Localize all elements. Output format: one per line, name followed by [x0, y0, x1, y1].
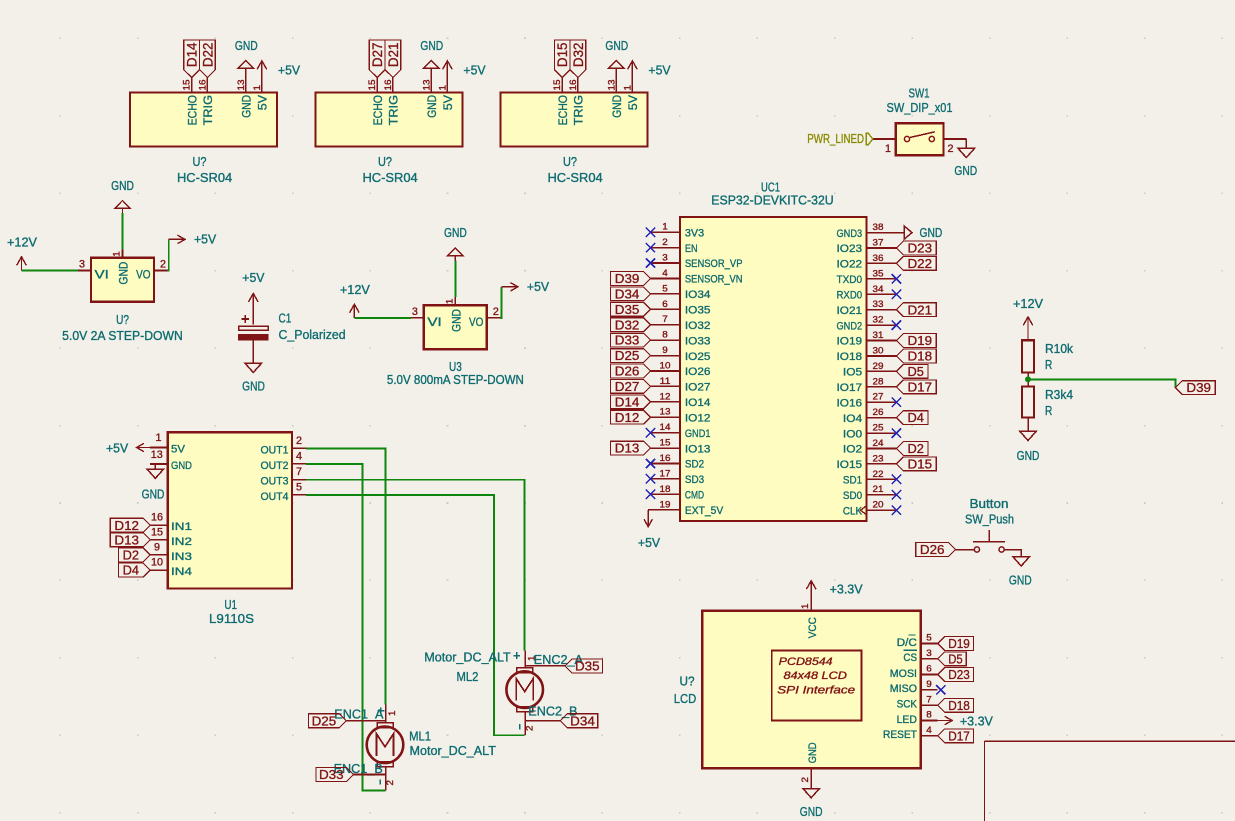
global label D21 — [896, 303, 936, 317]
ultrasonic sensor U? (HC-SR04 #3) — [501, 38, 671, 185]
svg-text:D35: D35 — [615, 302, 640, 317]
svg-text:15: 15 — [182, 80, 192, 91]
svg-text:8: 8 — [926, 710, 932, 720]
LCD pin 6 MOSI — [921, 674, 938, 676]
svg-text:5V: 5V — [171, 444, 185, 456]
svg-text:84x48 LCD: 84x48 LCD — [784, 670, 847, 682]
motor housing top — [377, 723, 393, 728]
motor housing bottom — [517, 707, 533, 712]
svg-text:1: 1 — [437, 85, 447, 91]
wire VI to +12V — [354, 317, 410, 319]
svg-text:GND: GND — [425, 95, 439, 118]
global label D35 — [565, 659, 603, 673]
svg-text:15: 15 — [151, 526, 163, 538]
svg-text:D39: D39 — [615, 271, 640, 286]
svg-text:IO15: IO15 — [837, 459, 863, 471]
svg-text:34: 34 — [873, 284, 884, 294]
global label D18 — [896, 349, 936, 363]
svg-text:IO4: IO4 — [843, 413, 862, 425]
svg-text:IN2: IN2 — [171, 536, 192, 548]
svg-text:SD2: SD2 — [685, 459, 704, 471]
+5V power symbol — [446, 61, 448, 93]
svg-text:15: 15 — [660, 438, 671, 448]
svg-text:D14: D14 — [184, 42, 200, 67]
svg-text:16: 16 — [151, 512, 163, 524]
LCD pin 2 GND — [810, 768, 812, 787]
capacitor C1 — [239, 270, 346, 393]
UC1 pin 15 IO13 — [651, 447, 681, 449]
global label D17 — [896, 380, 936, 394]
+5V power symbol — [261, 61, 263, 93]
motor circle — [506, 671, 543, 708]
global label D19 — [938, 637, 974, 651]
wire OUT2 to ML1 - — [306, 464, 385, 791]
+3.3V power symbol at VCC — [810, 581, 812, 596]
UC1 pin 12 IO14 — [651, 401, 681, 403]
UC1 pin 38 GND3 — [867, 232, 897, 234]
UC1 pin 37 IO23 — [867, 247, 897, 249]
wire ENC2_A to D35 — [525, 665, 565, 667]
U1 pin 4 OUT2 — [292, 463, 306, 465]
svg-text:+5V: +5V — [242, 270, 265, 285]
svg-text:U?: U? — [680, 674, 695, 689]
svg-text:D12: D12 — [114, 518, 139, 533]
wire D33 to ENC1_B — [354, 774, 386, 776]
LCD pin 3 CS — [921, 658, 938, 660]
svg-text:IO35: IO35 — [685, 305, 711, 317]
svg-text:IO22: IO22 — [837, 259, 863, 271]
svg-text:CS: CS — [903, 652, 917, 664]
ultrasonic sensor U? (HC-SR04 #2) — [316, 38, 486, 185]
UC1 pin 14 GND1 — [651, 432, 681, 434]
global label D34 — [560, 714, 598, 728]
LCD pin 5 D/C — [921, 643, 938, 645]
no-connect at pin 32 — [892, 320, 901, 329]
svg-text:D5: D5 — [908, 364, 924, 379]
svg-text:PCD8544: PCD8544 — [779, 656, 833, 668]
svg-text:16: 16 — [197, 80, 207, 91]
svg-text:+5V: +5V — [648, 63, 671, 78]
pin 1 GND — [454, 297, 456, 305]
svg-text:GND1: GND1 — [685, 428, 711, 440]
wire OUT4 to ML2 - — [306, 495, 524, 735]
global label D27 — [611, 380, 651, 394]
svg-text:Motor_DC_ALT: Motor_DC_ALT — [424, 650, 510, 665]
svg-text:GND: GND — [142, 487, 165, 502]
svg-text:U?: U? — [193, 154, 207, 169]
UC1 pin 18 CMD — [651, 493, 681, 495]
svg-text:D25: D25 — [312, 713, 337, 728]
svg-text:D23: D23 — [908, 241, 933, 256]
svg-text:HC-SR04: HC-SR04 — [547, 170, 602, 185]
svg-text:LED: LED — [897, 714, 917, 726]
svg-text:5: 5 — [296, 481, 302, 493]
svg-text:D15: D15 — [554, 42, 570, 67]
svg-text:GND2: GND2 — [837, 320, 863, 332]
LCD module U? PCD8544 — [674, 581, 993, 819]
svg-text:35: 35 — [873, 268, 884, 278]
svg-text:IO26: IO26 — [685, 366, 711, 378]
global label D25 — [611, 349, 651, 363]
svg-text:22: 22 — [873, 469, 884, 479]
no-connect at pin 16 — [646, 459, 655, 468]
svg-text:D22: D22 — [199, 42, 215, 67]
svg-text:CMD: CMD — [685, 490, 704, 502]
pin 1 5V — [631, 78, 633, 93]
svg-text:1: 1 — [387, 711, 397, 717]
svg-text:CLK: CLK — [843, 505, 863, 517]
svg-text:IO21: IO21 — [837, 305, 863, 317]
no-connect at pin 14 — [646, 428, 655, 437]
svg-text:25: 25 — [873, 423, 884, 433]
UC1 pin 13 IO12 — [651, 416, 681, 418]
no-connect at pin 2 — [646, 243, 655, 252]
global label D26 — [611, 364, 651, 378]
global label D27 — [369, 40, 385, 78]
svg-text:U?: U? — [378, 154, 392, 169]
motor driver U1 body — [168, 432, 292, 588]
svg-text:D34: D34 — [570, 713, 595, 728]
ML1 plus pin name — [378, 710, 385, 712]
svg-text:11: 11 — [660, 376, 671, 386]
svg-text:D33: D33 — [615, 333, 640, 348]
SW1 contacts — [904, 136, 909, 141]
UC1 pin 11 IO27 — [651, 385, 681, 387]
svg-text:GND: GND — [420, 38, 443, 53]
svg-text:32: 32 — [873, 315, 884, 325]
svg-text:1: 1 — [662, 222, 668, 232]
svg-text:ENC1_A: ENC1_A — [334, 707, 384, 722]
svg-text:IO32: IO32 — [685, 320, 711, 332]
U1 pin 5 OUT4 — [292, 494, 306, 496]
global label D2 — [896, 442, 928, 456]
UC1 pin 4 SENSOR_VN — [651, 278, 681, 280]
svg-text:D34: D34 — [615, 287, 640, 302]
UC1 pin 6 IO35 — [651, 308, 681, 310]
svg-text:PWR_LINED: PWR_LINED — [807, 131, 864, 146]
svg-text:28: 28 — [873, 376, 884, 386]
svg-text:6: 6 — [662, 299, 668, 309]
svg-text:U1: U1 — [224, 597, 237, 612]
sonar module U3 body — [501, 93, 648, 147]
svg-text:D18: D18 — [908, 349, 933, 364]
ML2 minus pin name — [519, 724, 521, 729]
UC1 pin 25 IO0 — [867, 432, 897, 434]
svg-text:5.0V 800mA STEP-DOWN: 5.0V 800mA STEP-DOWN — [387, 372, 524, 387]
svg-text:IO33: IO33 — [685, 335, 711, 347]
svg-text:TRIG: TRIG — [201, 95, 215, 125]
svg-text:18: 18 — [660, 484, 671, 494]
global label D4 — [118, 563, 150, 577]
svg-text:IO27: IO27 — [685, 382, 711, 394]
svg-text:15: 15 — [367, 80, 377, 91]
global label D15 — [554, 40, 570, 78]
svg-text:SCK: SCK — [897, 699, 918, 711]
svg-text:GND: GND — [800, 804, 823, 819]
+5V power symbol — [631, 61, 633, 93]
global label D15 — [896, 457, 936, 471]
svg-text:13: 13 — [660, 407, 671, 417]
svg-text:IO16: IO16 — [837, 397, 863, 409]
svg-text:SD0: SD0 — [843, 490, 862, 502]
ground symbol at GND3 — [904, 226, 912, 239]
pin 1 5V — [261, 78, 263, 93]
capacitor C1 plus sign — [242, 318, 250, 320]
global label D12 — [110, 518, 150, 532]
U1 pin 1 5V — [150, 447, 167, 449]
svg-text:GND: GND — [605, 38, 628, 53]
svg-text:16: 16 — [568, 80, 578, 91]
sonar module U1 body — [130, 93, 277, 147]
pin 15 ECHO — [561, 78, 563, 93]
global label D25 — [309, 714, 347, 728]
svg-text:3: 3 — [79, 259, 85, 271]
hierarchical label PWR_LINED — [866, 133, 873, 144]
pin 13 GND — [615, 78, 617, 93]
global label D23 — [896, 241, 936, 255]
svg-text:L9110S: L9110S — [209, 611, 254, 626]
svg-text:D19: D19 — [948, 636, 970, 651]
svg-text:4: 4 — [662, 268, 668, 278]
capacitor C1 top plate — [239, 326, 269, 330]
svg-text:GND: GND — [954, 163, 977, 178]
pin 1 5V — [446, 78, 448, 93]
svg-text:ESP32-DEVKITC-32U: ESP32-DEVKITC-32U — [711, 193, 833, 208]
motor housing bottom — [377, 762, 393, 767]
svg-text:19: 19 — [660, 499, 671, 509]
svg-text:+5V: +5V — [463, 63, 486, 78]
UC1 pin 7 IO32 — [651, 324, 681, 326]
global label D35 — [611, 302, 651, 316]
svg-text:D14: D14 — [615, 394, 640, 409]
regulator body — [91, 258, 154, 302]
resistor R3k4 — [1022, 386, 1034, 417]
wire GND pin up — [454, 261, 456, 298]
motor M letter — [516, 679, 533, 701]
svg-text:C_Polarized: C_Polarized — [279, 327, 346, 342]
no-connect at LCD pin 9 — [936, 685, 945, 694]
svg-text:D32: D32 — [615, 317, 640, 332]
svg-text:VI: VI — [95, 268, 109, 282]
global label D22 — [200, 40, 216, 78]
UC1 pin 19 EXT_5V — [651, 509, 681, 511]
wire OUT1 to ML1 + — [306, 448, 385, 704]
motor driver U1 L9110S — [106, 432, 306, 626]
svg-text:D12: D12 — [615, 410, 640, 425]
no-connect at pin 34 — [892, 290, 901, 299]
UC1 pin 20 CLK — [867, 509, 897, 511]
motor wiring — [306, 448, 524, 790]
svg-text:OUT3: OUT3 — [261, 476, 289, 488]
+5V power symbol above C1 — [252, 293, 254, 324]
svg-text:RESET: RESET — [883, 729, 917, 741]
svg-text:D27: D27 — [369, 42, 385, 67]
no-connect at pin 35 — [892, 274, 901, 283]
U1 pin 15 IN2 — [150, 539, 167, 541]
ground symbol — [424, 60, 439, 68]
svg-text:8: 8 — [662, 330, 668, 340]
svg-text:D2: D2 — [123, 548, 139, 563]
no-connect at pin 27 — [892, 398, 901, 407]
global label D2 — [118, 548, 150, 562]
svg-text:1: 1 — [252, 85, 262, 91]
svg-text:6: 6 — [926, 664, 932, 674]
svg-text:+5V: +5V — [527, 279, 550, 294]
svg-text:IO14: IO14 — [685, 397, 711, 409]
resistor R10k — [1022, 340, 1034, 372]
wire D26 to button — [956, 549, 975, 551]
svg-text:D13: D13 — [114, 532, 139, 547]
UC1 pin 32 GND2 — [867, 324, 897, 326]
UC1 pin 26 IO4 — [867, 417, 897, 419]
global label D4 — [896, 411, 928, 425]
ground symbol — [238, 60, 253, 68]
sheet border corner — [985, 741, 1235, 821]
svg-text:30: 30 — [873, 346, 884, 356]
ground below C1 — [245, 363, 261, 372]
sonar module U2 body — [316, 93, 463, 147]
U1 pin 7 OUT3 — [292, 479, 306, 481]
svg-text:10: 10 — [151, 557, 163, 569]
svg-text:2: 2 — [948, 143, 954, 155]
svg-text:31: 31 — [873, 330, 884, 340]
U1 pin 9 IN3 — [150, 554, 167, 556]
svg-text:2: 2 — [493, 306, 499, 318]
UC1 pin 21 SD0 — [867, 494, 897, 496]
UC1 pin 16 SD2 — [651, 463, 681, 465]
svg-text:D39: D39 — [1186, 380, 1211, 395]
svg-text:U?: U? — [563, 154, 577, 169]
global label D22 — [896, 257, 936, 271]
ground below LCD — [803, 789, 819, 798]
wire GND pin up — [122, 213, 124, 250]
svg-text:5: 5 — [926, 633, 932, 643]
UC1 pin 31 IO19 — [867, 340, 897, 342]
LCD pin 9 MISO — [921, 689, 938, 691]
svg-text:GND: GND — [117, 262, 131, 285]
no-connect at pin 17 — [646, 474, 655, 483]
svg-text:+5V: +5V — [638, 535, 661, 550]
wire VO to +5V — [500, 287, 501, 318]
svg-text:D/C: D/C — [897, 637, 917, 649]
svg-text:GND: GND — [171, 460, 192, 472]
svg-text:ML2: ML2 — [457, 669, 479, 684]
push button SW_Push — [916, 496, 1032, 588]
svg-text:7: 7 — [926, 694, 932, 704]
global label D32 — [611, 318, 651, 332]
svg-text:D5: D5 — [948, 651, 962, 666]
wire button to GND — [1004, 550, 1021, 557]
svg-text:1: 1 — [800, 604, 810, 610]
svg-text:16: 16 — [383, 80, 393, 91]
global label D26 — [916, 543, 956, 557]
ML1 minus pin name — [379, 779, 381, 784]
svg-text:GND: GND — [610, 95, 624, 118]
svg-text:IO23: IO23 — [837, 243, 863, 255]
ground below button — [1013, 557, 1029, 566]
svg-text:5: 5 — [662, 283, 668, 293]
motor pin 1 lead — [524, 650, 526, 667]
pin 16 TRIG — [392, 78, 394, 93]
global label D21 — [385, 40, 401, 78]
svg-text:9: 9 — [662, 345, 668, 355]
svg-text:OUT1: OUT1 — [261, 444, 289, 456]
svg-text:+12V: +12V — [1013, 296, 1043, 311]
svg-text:D25: D25 — [615, 348, 640, 363]
wire VO to +5V — [167, 239, 168, 270]
svg-text:IO17: IO17 — [837, 382, 863, 394]
svg-text:D33: D33 — [319, 767, 344, 782]
svg-text:OUT4: OUT4 — [261, 491, 289, 503]
pin 16 TRIG — [577, 78, 579, 93]
ground at SW1 pin 2 — [965, 139, 967, 148]
U1 pin 10 IN4 — [150, 569, 167, 571]
svg-text:5.0V 2A STEP-DOWN: 5.0V 2A STEP-DOWN — [62, 328, 183, 343]
UC1 pin 8 IO33 — [651, 339, 681, 341]
SW1 pin 2 — [944, 138, 967, 140]
LCD pin 8 LED — [921, 720, 938, 722]
svg-text:7: 7 — [662, 314, 668, 324]
svg-text:D18: D18 — [948, 698, 970, 713]
svg-text:5V: 5V — [441, 94, 455, 110]
svg-text:IO13: IO13 — [685, 443, 711, 455]
svg-text:IO18: IO18 — [837, 351, 863, 363]
UC1 pin 5 IO34 — [651, 293, 681, 295]
svg-text:37: 37 — [873, 238, 884, 248]
pin 3 VI — [411, 317, 424, 319]
switch SW1 body — [896, 123, 944, 155]
svg-text:D32: D32 — [570, 42, 586, 67]
svg-text:+12V: +12V — [7, 235, 37, 250]
svg-text:SENSOR_VP: SENSOR_VP — [685, 258, 743, 270]
motor pin 1 lead — [385, 705, 387, 723]
svg-text:GND: GND — [111, 178, 134, 193]
svg-text:D2: D2 — [908, 441, 924, 456]
svg-text:R3k4: R3k4 — [1045, 387, 1073, 402]
no-connect at pin 18 — [646, 490, 655, 499]
no-connect at pin 22 — [892, 475, 901, 484]
no-connect at pin 20 — [892, 506, 901, 515]
regulator U3 5.0V 800mA STEP-DOWN — [340, 225, 550, 387]
pin 16 TRIG — [206, 78, 208, 93]
svg-text:D4: D4 — [908, 410, 924, 425]
UC1 pin 1 3V3 — [651, 231, 681, 233]
svg-text:2: 2 — [800, 777, 810, 783]
+3.3V power symbol at LED — [938, 720, 953, 722]
motor pin 2 lead — [524, 712, 526, 736]
pin 13 GND — [245, 78, 247, 93]
svg-text:29: 29 — [873, 361, 884, 371]
svg-text:21: 21 — [873, 484, 884, 494]
regulator body — [424, 305, 487, 349]
svg-text:MISO: MISO — [890, 683, 917, 695]
svg-text:HC-SR04: HC-SR04 — [362, 170, 417, 185]
svg-text:24: 24 — [873, 438, 884, 448]
UC1 pin 35 TXD0 — [867, 278, 897, 280]
svg-text:D35: D35 — [575, 659, 600, 674]
svg-text:IO0: IO0 — [843, 428, 862, 440]
UC1 pin 30 IO18 — [867, 355, 897, 357]
svg-text:R: R — [1045, 403, 1052, 418]
svg-text:13: 13 — [421, 80, 431, 91]
svg-text:4: 4 — [296, 450, 302, 462]
svg-text:D15: D15 — [908, 457, 933, 472]
capacitor C1 bottom plate — [239, 335, 269, 341]
svg-text:D17: D17 — [948, 728, 970, 743]
svg-text:SD3: SD3 — [685, 474, 704, 486]
no-connect at pin 3 — [646, 258, 655, 267]
pin 15 ECHO — [191, 78, 193, 93]
